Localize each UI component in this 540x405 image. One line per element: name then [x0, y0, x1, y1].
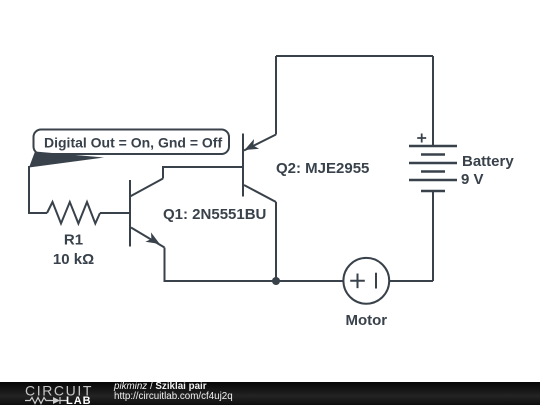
- motor bar symbol: [375, 273, 377, 289]
- svg-text:Digital Out = On, Gnd = Off: Digital Out = On, Gnd = Off: [44, 135, 222, 151]
- wire battery bottom lead: [432, 192, 434, 281]
- wire Q1 collector to Q2 base: [163, 167, 242, 179]
- svg-text:Q2: MJE2955: Q2: MJE2955: [276, 160, 369, 177]
- motor plus symbol: [350, 274, 365, 289]
- wire Q1 emitter down and bottom rail to junction: [165, 248, 277, 282]
- transistor Q2 base bar: [242, 134, 244, 197]
- transistor Q2 emitter arrow: [245, 139, 260, 150]
- motor M1 circle: [343, 258, 389, 304]
- svg-text:9 V: 9 V: [461, 171, 484, 188]
- wire from resistor R1 to Q1 base: [100, 212, 129, 214]
- credit text: [114, 382, 233, 401]
- transistor Q2 collector diagonal: [244, 185, 276, 202]
- wire battery top lead: [432, 56, 434, 145]
- svg-text:R1: R1: [64, 232, 83, 249]
- transistor Q1 base bar: [129, 180, 131, 247]
- wire junction to motor: [276, 280, 343, 282]
- logo resistor-diode line: [25, 397, 67, 404]
- wire top rail to battery: [276, 55, 433, 57]
- CircuitLab logo: [25, 384, 115, 405]
- svg-text:10 kΩ: 10 kΩ: [53, 251, 94, 268]
- battery plus sign: [417, 134, 426, 143]
- wire Q2 collector down to junction: [275, 202, 277, 281]
- annotation callout tail: [29, 152, 104, 168]
- footer black bar: [0, 382, 540, 405]
- svg-text:LAB: LAB: [66, 395, 92, 405]
- junction dot: [272, 277, 280, 285]
- wire motor to battery lead: [389, 280, 433, 282]
- annotation callout box: [34, 130, 230, 155]
- transistor Q1 emitter diagonal: [131, 228, 165, 248]
- wire Q2 emitter up to top rail: [275, 56, 277, 135]
- transistor Q2 emitter diagonal: [244, 135, 276, 151]
- battery V1 plates: [409, 146, 457, 191]
- transistor Q1 emitter arrow: [145, 232, 159, 244]
- svg-text:Motor: Motor: [345, 312, 387, 329]
- wire from annotation to resistor (left vertical + horizontal): [29, 166, 47, 213]
- svg-text:Battery: Battery: [462, 153, 514, 170]
- resistor R1 zigzag: [47, 202, 100, 224]
- svg-text:Q1: 2N5551BU: Q1: 2N5551BU: [163, 206, 266, 223]
- transistor Q1 collector diagonal: [130, 179, 163, 197]
